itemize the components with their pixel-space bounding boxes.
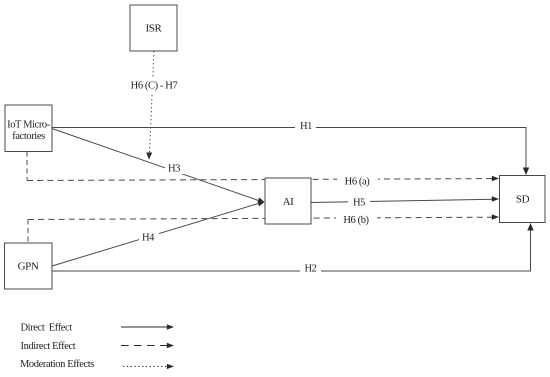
- svg-text:H6 (b): H6 (b): [343, 215, 369, 226]
- svg-text:GPN: GPN: [18, 261, 39, 273]
- svg-text:H5: H5: [353, 198, 365, 209]
- svg-text:IoT Micro-: IoT Micro-: [7, 120, 51, 131]
- svg-text:SD: SD: [516, 194, 530, 206]
- svg-text:H3: H3: [168, 164, 180, 175]
- svg-text:Indirect Effect: Indirect Effect: [21, 341, 76, 352]
- svg-text:factories: factories: [12, 131, 45, 142]
- svg-text:Direct Effect: Direct Effect: [21, 323, 73, 334]
- svg-text:H6 (C) - H7: H6 (C) - H7: [131, 81, 178, 92]
- svg-text:ISR: ISR: [146, 23, 163, 35]
- svg-text:AI: AI: [283, 196, 295, 208]
- svg-text:H1: H1: [300, 121, 312, 132]
- svg-text:Moderation Effects: Moderation Effects: [20, 359, 94, 370]
- svg-text:H4: H4: [142, 233, 155, 244]
- svg-text:H2: H2: [304, 264, 316, 275]
- svg-text:H6 (a): H6 (a): [345, 177, 371, 188]
